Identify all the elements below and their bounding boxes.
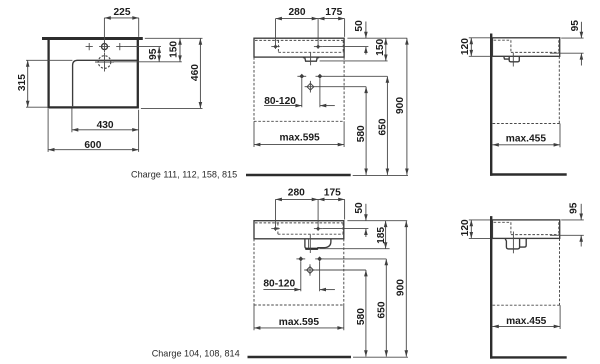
- variant left tap cross: [271, 228, 279, 230]
- variant dim 95 extension lines: [550, 220, 584, 235]
- svg-text:max.595: max.595: [279, 317, 320, 328]
- variant cup bottom leader: [319, 248, 389, 250]
- svg-text:650: 650: [377, 301, 388, 318]
- floor line front view: [246, 174, 351, 176]
- variant side drain fitting: [505, 239, 526, 249]
- dim 315 line: [27, 60, 29, 107]
- dim 150 line front: [385, 38, 387, 61]
- svg-text:900: 900: [396, 279, 407, 296]
- front view bowl hidden contour: [255, 40, 343, 52]
- dim 315 top extension: [26, 59, 72, 61]
- svg-text:120: 120: [460, 38, 471, 55]
- side view wall: [490, 34, 492, 176]
- svg-text:Charge 111, 112, 158, 815: Charge 111, 112, 158, 815: [131, 170, 237, 180]
- right bolt hole: [316, 75, 325, 77]
- variant siphon inner wall: [308, 239, 310, 249]
- variant pedestal zone dashed outline: [254, 239, 344, 305]
- variant dim max.455 extension line: [559, 305, 561, 329]
- dim 460 line: [199, 38, 201, 108]
- variant side clearance dashed outline: [493, 238, 560, 305]
- variant siphon cup outline: [305, 239, 331, 249]
- svg-text:225: 225: [114, 7, 131, 18]
- variant dim 280 line: [276, 198, 319, 200]
- dim max.455 line: [492, 144, 560, 146]
- svg-text:50: 50: [354, 202, 365, 214]
- variant side view wall: [490, 216, 492, 359]
- dim 95 extension lines side: [550, 38, 584, 53]
- bolt hole extension lines: [302, 79, 320, 108]
- dim 225 line: [104, 17, 138, 19]
- svg-text:315: 315: [17, 74, 28, 91]
- plan view: center tap hole: [102, 44, 108, 50]
- dim 120 extension lines: [469, 38, 490, 57]
- variant siphon centerline: [309, 234, 311, 253]
- front view basin outline: [254, 38, 344, 57]
- front view drain socket: [303, 58, 319, 62]
- dim 95 line: [158, 47, 160, 62]
- svg-text:430: 430: [97, 120, 114, 131]
- plan view: drain crosshair: [95, 53, 114, 72]
- plan view: basin outer rectangle: [49, 39, 138, 107]
- side view floor: [490, 173, 567, 175]
- svg-text:600: 600: [84, 140, 101, 151]
- variant dim 280/175 extension lines: [276, 199, 345, 231]
- plan view: drain dashed circle: [98, 56, 111, 69]
- left bolt hole: [297, 75, 306, 77]
- plan view: left tap mark: [86, 43, 93, 50]
- dim 650 line: [386, 76, 388, 175]
- side view bowl hidden contour: [494, 40, 559, 52]
- floor extension line: [353, 174, 408, 176]
- variant siphon cup base: [305, 248, 318, 250]
- variant side bowl hidden contour: [494, 222, 559, 234]
- dim 315 bottom extension: [26, 106, 47, 108]
- svg-text:80-120: 80-120: [263, 278, 295, 289]
- dim 460 top extension: [145, 37, 203, 39]
- variant left bolt hole: [296, 258, 305, 260]
- variant dim 80-120 arrows: [263, 289, 300, 291]
- variant right tap cross: [314, 228, 322, 230]
- dim 50 arrows: [365, 22, 367, 39]
- svg-text:150: 150: [375, 38, 386, 55]
- front view drain centerline: [310, 53, 312, 66]
- svg-text:120: 120: [460, 219, 471, 236]
- plan view: right tap mark: [116, 43, 123, 50]
- variant basin top leader: [347, 220, 407, 222]
- dim 280/175 extension lines: [276, 19, 345, 49]
- svg-text:max.455: max.455: [506, 134, 547, 145]
- variant front view basin outline: [254, 221, 344, 239]
- variant dim max.595 extension lines: [254, 305, 344, 330]
- variant dim 175 line: [318, 198, 345, 200]
- basin top leader: [347, 37, 407, 39]
- variant dim 95 arrows: [580, 204, 582, 220]
- variant floor extension line: [353, 356, 408, 358]
- variant dim max.595 line: [254, 327, 344, 329]
- variant dim 50 arrows: [365, 204, 367, 221]
- variant bolt hole leader: [324, 258, 386, 260]
- dim max.595 line: [254, 144, 344, 146]
- dim 580 line: [365, 87, 367, 175]
- variant front bowl hidden contour: [255, 223, 343, 234]
- drain leader line: [113, 61, 182, 63]
- dim 600 line: [48, 149, 139, 151]
- svg-text:580: 580: [356, 308, 367, 325]
- variant dim 900 line: [405, 221, 407, 357]
- drain position leader: [316, 86, 366, 88]
- svg-text:185: 185: [376, 227, 387, 244]
- svg-text:650: 650: [377, 118, 388, 135]
- variant bolt hole extension lines: [301, 261, 320, 291]
- svg-text:95: 95: [148, 48, 159, 60]
- side view drain centerline: [512, 53, 514, 67]
- svg-text:Charge 104, 108, 814: Charge 104, 108, 814: [152, 349, 240, 359]
- svg-text:50: 50: [354, 20, 365, 32]
- variant dim 120 extension lines: [469, 220, 490, 239]
- bolt hole leader: [324, 75, 387, 77]
- dim 175 line: [318, 18, 345, 20]
- dim 150 line: [179, 38, 181, 61]
- dim 95 arrows side: [580, 22, 582, 38]
- tap hole leader: [322, 46, 368, 48]
- side view basin outline: [492, 38, 559, 57]
- dim 460 bottom extension: [141, 107, 203, 109]
- dim 225 extension lines: [104, 18, 138, 44]
- plan view: inner bowl outline: [73, 60, 138, 106]
- svg-text:max.455: max.455: [506, 316, 547, 327]
- variant side view floor: [490, 356, 567, 358]
- dim 430 extension lines: [72, 109, 139, 152]
- pedestal zone dashed outline: [254, 57, 344, 121]
- front view right tap cross: [314, 46, 322, 48]
- variant floor line: [248, 356, 352, 359]
- svg-text:80-120: 80-120: [264, 96, 296, 107]
- tap leader line: [123, 46, 161, 48]
- svg-text:175: 175: [325, 7, 342, 18]
- variant dim 650 line: [385, 259, 387, 357]
- svg-text:95: 95: [570, 20, 581, 32]
- dim 900 line: [406, 38, 408, 175]
- dim 80-120 arrows: [264, 105, 302, 107]
- variant side drain centerline: [512, 232, 514, 254]
- variant dim max.455 line: [492, 325, 560, 327]
- dim 280 line: [276, 18, 319, 20]
- dim 430 line: [72, 129, 139, 131]
- drain position symbol: [307, 83, 314, 90]
- plan view: back edge thick line: [42, 37, 143, 40]
- variant dim 120 line: [470, 220, 472, 239]
- svg-text:95: 95: [569, 202, 580, 214]
- variant drain position leader: [316, 269, 366, 271]
- drain outlet leader: [320, 60, 388, 62]
- variant dim 580 line: [365, 270, 367, 357]
- svg-text:max.595: max.595: [279, 133, 320, 144]
- variant right bolt hole: [315, 258, 324, 260]
- svg-text:150: 150: [169, 41, 180, 58]
- dim 120 line: [470, 38, 472, 57]
- variant dim 185 line: [385, 221, 387, 249]
- dim 600 extension line: [47, 109, 49, 152]
- variant tap hole leader: [322, 228, 368, 230]
- svg-text:460: 460: [190, 64, 201, 81]
- dim max.455 extension line: [559, 124, 561, 148]
- variant side view basin outline: [492, 220, 559, 239]
- dim max.595 extension lines: [254, 121, 344, 147]
- svg-text:280: 280: [289, 7, 306, 18]
- side view drain fitting: [504, 57, 519, 62]
- svg-text:900: 900: [395, 97, 406, 114]
- front view left tap cross: [271, 46, 279, 48]
- svg-text:175: 175: [324, 188, 341, 199]
- svg-text:580: 580: [356, 125, 367, 142]
- variant drain position symbol: [307, 267, 314, 274]
- side view clearance dashed outline: [493, 56, 560, 123]
- svg-text:280: 280: [288, 188, 305, 199]
